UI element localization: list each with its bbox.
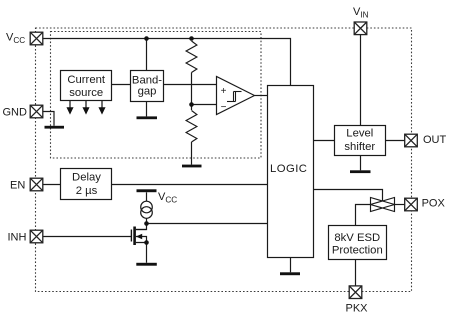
svg-text:Current: Current xyxy=(67,74,106,86)
svg-text:INH: INH xyxy=(8,232,27,244)
svg-text:gap: gap xyxy=(138,86,157,98)
svg-text:source: source xyxy=(69,87,103,99)
svg-text:Delay: Delay xyxy=(72,172,101,184)
svg-text:PKX: PKX xyxy=(346,303,369,315)
svg-text:GND: GND xyxy=(3,107,28,119)
svg-text:EN: EN xyxy=(10,180,25,192)
svg-text:OUT: OUT xyxy=(423,134,447,146)
svg-text:VCC: VCC xyxy=(6,32,25,46)
svg-text:2 µs: 2 µs xyxy=(76,185,98,197)
svg-text:Protection: Protection xyxy=(332,245,383,257)
svg-text:+: + xyxy=(221,86,227,97)
svg-text:VIN: VIN xyxy=(353,6,369,20)
svg-text:shifter: shifter xyxy=(344,141,375,153)
svg-text:POX: POX xyxy=(422,197,446,209)
svg-text:Level: Level xyxy=(346,128,373,140)
svg-text:VCC: VCC xyxy=(158,191,177,205)
svg-text:LOGIC: LOGIC xyxy=(270,163,307,175)
svg-text:−: − xyxy=(221,102,227,113)
svg-text:8kV ESD: 8kV ESD xyxy=(334,232,380,244)
